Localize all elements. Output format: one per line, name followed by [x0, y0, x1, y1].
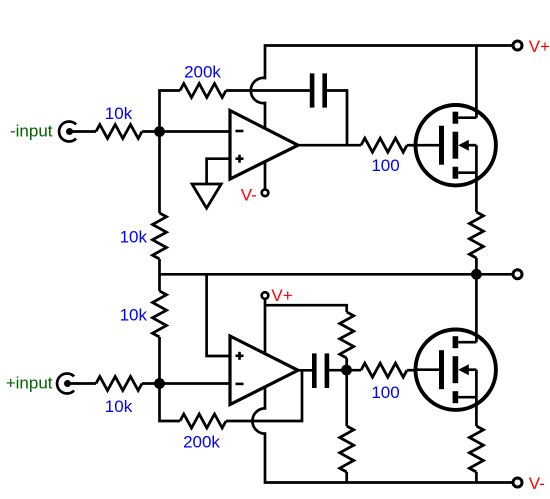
svg-text:10k: 10k: [105, 104, 133, 123]
resistor R12: [469, 426, 483, 472]
U1 plus glyph: [236, 155, 244, 163]
wire R1 to U1 inverting input (node A row): [142, 130, 230, 133]
svg-text:100: 100: [371, 156, 399, 175]
svg-text:V-: V-: [529, 474, 545, 493]
wire R10 to Q2 gate: [407, 369, 417, 372]
capacitor C2: [312, 353, 329, 388]
wire R3 to R4 through mid rail: [158, 259, 161, 291]
resistor R8 200k: [180, 414, 226, 428]
wire R6 to output rail: [475, 258, 478, 274]
wire U2 V+ pin: [264, 299, 267, 353]
wire node A down to R3: [158, 132, 161, 214]
capacitor C1: [310, 73, 327, 107]
U1 minus glyph: [236, 130, 244, 133]
svg-text:10k: 10k: [120, 306, 148, 325]
svg-text:10k: 10k: [105, 397, 133, 416]
wire R7 to U2 inverting input: [142, 382, 230, 385]
wire node D down to R11: [345, 370, 348, 426]
node C junction dot on output rail: [471, 269, 482, 280]
wire jack J1 to R1: [73, 130, 97, 133]
wire U2 output to C2: [296, 369, 312, 372]
wire R12 to V- rail: [475, 472, 478, 483]
wire R11 to V- rail: [345, 472, 348, 483]
wire U1 output to R5: [296, 144, 361, 147]
resistor R11: [340, 426, 354, 472]
wire U2 V- pin with hop to V- rail: [252, 387, 512, 483]
svg-text:10k: 10k: [120, 228, 148, 247]
wire C1 right plate down to U1 output row: [327, 91, 347, 146]
wire C2 right plate to R10: [329, 369, 361, 372]
svg-text:V+: V+: [529, 37, 550, 56]
wire U1 V- pin: [264, 162, 267, 190]
terminal V-: [513, 478, 522, 487]
resistor R9: [340, 312, 354, 358]
resistor R1 10k: [96, 125, 142, 139]
svg-text:V-: V-: [241, 186, 257, 205]
wire Q2 source to R12: [475, 397, 478, 426]
ground: [192, 184, 221, 208]
terminal U1 V- pin: [262, 190, 269, 197]
wire Q1 source to R6: [475, 173, 478, 212]
op-amp U2: [230, 336, 298, 405]
svg-text:100: 100: [371, 383, 399, 402]
terminal U2 V+ pin: [262, 292, 269, 299]
op-amp U1: [230, 111, 298, 180]
wire R5 to Q1 gate: [407, 144, 417, 147]
terminal output: [513, 270, 522, 279]
terminal V+: [513, 41, 522, 50]
U2 minus glyph: [236, 383, 244, 386]
wire R9 to node D: [345, 358, 348, 370]
resistor R2 200k: [180, 84, 226, 98]
resistor R3 10k: [153, 213, 167, 259]
wire output rail: [160, 273, 513, 276]
resistor R6: [469, 212, 483, 258]
wire R4 down to node B: [158, 337, 161, 384]
resistor R10 100: [361, 363, 407, 377]
resistor R5 100: [361, 138, 407, 152]
resistor R7 10k: [96, 377, 142, 391]
U2 plus glyph: [236, 352, 244, 360]
wire output rail to U2 plus input: [207, 274, 230, 356]
node D junction dot: [341, 365, 352, 376]
input jack J1 (-input): [59, 122, 76, 142]
node B junction dot: [154, 378, 165, 389]
transistor Q1 MOSFET: [416, 105, 496, 185]
svg-text:V+: V+: [271, 286, 292, 305]
input jack J2 (+input): [57, 374, 74, 394]
transistor Q2 MOSFET: [416, 330, 496, 410]
wire node B down to R8: [160, 384, 181, 422]
svg-text:200k: 200k: [184, 63, 221, 82]
wire node C to Q2 drain: [475, 274, 478, 342]
wire R8 up to U2 output: [226, 370, 302, 421]
wire V+ rail to Q1 drain: [475, 46, 478, 118]
wire R2 to C1 left plate: [226, 89, 310, 92]
wire U2 V+ pin to R9: [265, 305, 347, 312]
node A junction dot: [154, 126, 165, 137]
svg-text:200k: 200k: [183, 433, 220, 452]
resistor R4 10k: [153, 291, 167, 337]
svg-text:-input: -input: [10, 122, 53, 141]
wire jack J2 to R7: [71, 382, 97, 385]
wire V+ rail with hop to U1 V+ pin: [251, 46, 512, 129]
wire node A up to 200k feedback row: [160, 91, 181, 132]
svg-text:+input: +input: [6, 374, 53, 393]
wire U1 plus input to ground: [207, 159, 230, 184]
